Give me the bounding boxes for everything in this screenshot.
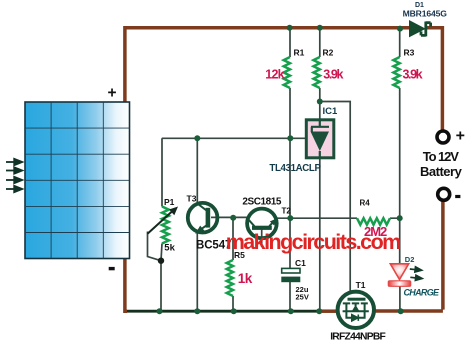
svg-text:MBR1645G: MBR1645G bbox=[403, 9, 448, 19]
svg-text:1k: 1k bbox=[238, 271, 253, 286]
svg-text:R3: R3 bbox=[404, 48, 415, 58]
svg-text:CHARGE: CHARGE bbox=[404, 287, 440, 297]
svg-text:R1: R1 bbox=[294, 48, 305, 58]
svg-text:IRFZ44NPBF: IRFZ44NPBF bbox=[330, 332, 385, 343]
svg-text:T2: T2 bbox=[282, 207, 292, 216]
svg-text:IC1: IC1 bbox=[323, 106, 339, 117]
svg-text:12k: 12k bbox=[265, 68, 284, 82]
svg-text:R4: R4 bbox=[360, 199, 371, 208]
svg-text:R2: R2 bbox=[323, 48, 334, 58]
svg-text:3.9k: 3.9k bbox=[323, 68, 343, 82]
svg-text:To 12V: To 12V bbox=[423, 149, 459, 164]
svg-text:3.9k: 3.9k bbox=[403, 68, 423, 82]
svg-text:T3: T3 bbox=[187, 194, 197, 204]
svg-text:2M2: 2M2 bbox=[364, 224, 387, 239]
svg-text:25V: 25V bbox=[296, 293, 309, 302]
svg-text:C1: C1 bbox=[295, 258, 306, 268]
svg-text:2SC1815: 2SC1815 bbox=[242, 196, 281, 207]
svg-text:+: + bbox=[456, 127, 465, 144]
svg-text:5k: 5k bbox=[164, 243, 175, 254]
svg-text:P1: P1 bbox=[164, 197, 175, 207]
svg-text:D2: D2 bbox=[405, 255, 415, 264]
svg-text:TL431ACLP: TL431ACLP bbox=[269, 163, 321, 174]
svg-text:+: + bbox=[108, 84, 117, 101]
svg-text:Battery: Battery bbox=[420, 164, 463, 179]
svg-text:T1: T1 bbox=[356, 280, 366, 290]
